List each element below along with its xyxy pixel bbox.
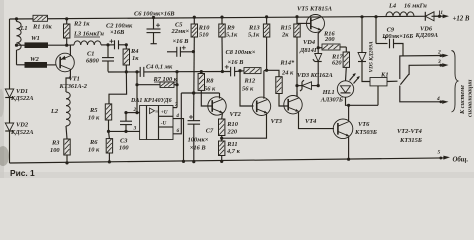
- svg-text:×16 В: ×16 В: [173, 38, 190, 45]
- svg-text:К системе: К системе: [459, 85, 466, 115]
- wire VT5 emitter: [317, 30, 322, 53]
- svg-text:×16В: ×16В: [110, 29, 125, 36]
- svg-text:Рис. 1: Рис. 1: [10, 168, 35, 178]
- resistor R10b: [219, 114, 239, 142]
- capacitor C6: [134, 10, 175, 43]
- svg-text:10 к: 10 к: [88, 146, 100, 153]
- resistor R1: [32, 15, 52, 30]
- inductor L3: [67, 31, 108, 46]
- svg-text:С1: С1: [87, 51, 94, 58]
- svg-text:С6 100мк×16В: С6 100мк×16В: [134, 10, 175, 17]
- svg-text:1: 1: [440, 10, 443, 16]
- svg-text:VD3 КС162А: VD3 КС162А: [297, 72, 333, 79]
- wire pin2 line: [400, 50, 449, 80]
- svg-text:3: 3: [437, 59, 441, 65]
- svg-text:1к: 1к: [132, 55, 139, 62]
- svg-text:3: 3: [133, 126, 137, 132]
- svg-text:R2 1к: R2 1к: [73, 21, 90, 28]
- wire opamp out rail: [181, 91, 219, 94]
- resistor R11: [219, 141, 241, 163]
- svg-text:VT2: VT2: [230, 111, 242, 118]
- svg-text:W1: W1: [31, 35, 40, 42]
- svg-text:6800: 6800: [86, 58, 100, 65]
- svg-text:-U: -U: [161, 120, 167, 126]
- resistor R7: [137, 76, 178, 88]
- capacitor C5: [167, 22, 193, 57]
- svg-text:7: 7: [175, 102, 178, 108]
- inductor L4: [386, 3, 427, 17]
- resistor R8: [198, 74, 216, 107]
- wire pin1 +12V: [432, 10, 470, 22]
- svg-text:16 мкГн: 16 мкГн: [404, 3, 427, 10]
- svg-text:R11: R11: [226, 141, 237, 148]
- svg-text:VT1: VT1: [69, 76, 80, 83]
- svg-text:R10: R10: [226, 121, 238, 128]
- brace outputs: [452, 51, 459, 113]
- wire bottom common bus: [10, 156, 451, 163]
- svg-text:∞: ∞: [155, 109, 159, 115]
- svg-text:HL1: HL1: [322, 89, 335, 96]
- svg-text:100мк×: 100мк×: [188, 136, 209, 143]
- svg-text:КТ315Б: КТ315Б: [399, 137, 422, 144]
- winding W1: [15, 35, 67, 48]
- svg-text:L4: L4: [388, 3, 396, 10]
- wire VT3 base net: [238, 69, 253, 106]
- resistor R10a: [191, 16, 210, 121]
- diode VD3: [297, 72, 333, 91]
- caption Рис. 1: [10, 168, 35, 178]
- svg-text:С8 100мк×: С8 100мк×: [226, 49, 256, 56]
- svg-text:2: 2: [133, 107, 137, 113]
- svg-text:КТ503Б: КТ503Б: [354, 129, 377, 136]
- wire pin5 arrow: [438, 150, 469, 164]
- op-amp DA1: [130, 98, 173, 140]
- relay K1: [370, 71, 389, 105]
- svg-text:×16 В: ×16 В: [228, 59, 245, 66]
- svg-text:200: 200: [324, 36, 335, 43]
- capacitor C4: [140, 64, 173, 77]
- resistor R5: [88, 104, 112, 131]
- wire HL1 bottom rail: [346, 97, 379, 107]
- svg-text:5,1к: 5,1к: [248, 31, 260, 38]
- transistor VT6: [333, 105, 377, 160]
- resistor R16: [318, 30, 346, 50]
- label to alarm system: [459, 79, 474, 117]
- wire feedback left: [135, 70, 138, 114]
- svg-text:АЛ307Б: АЛ307Б: [320, 96, 343, 103]
- svg-text:VD5 КД209А: VD5 КД209А: [369, 41, 375, 73]
- diode VD1: [5, 88, 33, 102]
- transistor VT4: [284, 92, 317, 126]
- diode VD2: [5, 122, 33, 136]
- diode VD4: [299, 39, 322, 86]
- svg-text:W2: W2: [30, 56, 40, 63]
- diode VD5: [358, 15, 375, 81]
- resistor R15: [280, 15, 301, 96]
- wire pin3 line: [409, 59, 448, 75]
- wire top supply bus +12V: [10, 16, 441, 19]
- svg-text:R3: R3: [51, 140, 60, 147]
- svg-text:R6: R6: [89, 139, 98, 146]
- svg-text:×16 В: ×16 В: [190, 144, 207, 151]
- wire rail69: [177, 70, 231, 73]
- svg-text:R14*: R14*: [279, 60, 295, 67]
- svg-text:24 к: 24 к: [281, 69, 294, 76]
- svg-text:VD4: VD4: [303, 39, 315, 46]
- led HL1: [320, 67, 360, 103]
- svg-text:VT2-VT4: VT2-VT4: [397, 128, 422, 135]
- svg-text:DA1 КР140УД6: DA1 КР140УД6: [130, 98, 172, 104]
- svg-text:КД522А: КД522А: [10, 95, 34, 102]
- svg-text:L3 16мкГн: L3 16мкГн: [73, 31, 104, 38]
- transistor VT3: [252, 70, 282, 125]
- svg-text:Д814Г: Д814Г: [299, 47, 318, 54]
- svg-text:220: 220: [227, 128, 238, 135]
- transistor VT2: [208, 93, 242, 118]
- relay contact K1.1: [387, 74, 409, 102]
- transistor VT5: [297, 5, 332, 32]
- capacitor C7: [188, 115, 215, 163]
- capacitor C8: [225, 49, 256, 76]
- wire VT5 base: [297, 22, 310, 24]
- svg-text:VT5 КТ815А: VT5 КТ815А: [297, 5, 332, 12]
- svg-text:VT4: VT4: [305, 118, 316, 125]
- resistor R9: [219, 16, 238, 74]
- transistor VT1: [56, 44, 88, 92]
- svg-text:С4 0,1 мк: С4 0,1 мк: [146, 64, 173, 71]
- svg-text:5: 5: [438, 150, 441, 156]
- svg-text:10 к: 10 к: [88, 114, 100, 121]
- svg-text:100мк×16Б: 100мк×16Б: [382, 33, 413, 40]
- wire pin4: [173, 113, 185, 163]
- wire left frame: [9, 19, 11, 163]
- svg-text:+U: +U: [161, 110, 168, 116]
- resistor R4: [109, 43, 139, 104]
- wire pin3: [107, 126, 140, 133]
- resistor R13: [248, 15, 270, 72]
- svg-text:VD2: VD2: [16, 122, 29, 129]
- svg-text:R5: R5: [89, 107, 98, 114]
- svg-text:5,1к: 5,1к: [226, 31, 238, 38]
- svg-text:С7: С7: [206, 128, 214, 135]
- wire pin4 line: [404, 96, 449, 104]
- svg-text:КД522А: КД522А: [10, 129, 34, 136]
- svg-text:56 к: 56 к: [204, 86, 216, 93]
- resistor R17: [331, 47, 350, 67]
- svg-text:сигнализации: сигнализации: [467, 79, 474, 117]
- resistor R2: [64, 17, 91, 45]
- svg-text:2к: 2к: [281, 31, 289, 38]
- wire pin6 output: [173, 93, 181, 134]
- svg-text:L1: L1: [20, 25, 28, 32]
- svg-text:4: 4: [436, 96, 440, 102]
- label VT2-VT4: [397, 128, 422, 144]
- svg-text:VT3: VT3: [271, 118, 283, 125]
- winding W2: [17, 56, 57, 68]
- svg-text:КД209А: КД209А: [415, 32, 439, 39]
- svg-text:56 к: 56 к: [242, 86, 254, 93]
- resistor R6: [88, 131, 113, 163]
- svg-text:4,7 к: 4,7 к: [226, 148, 241, 155]
- svg-text:22мк×: 22мк×: [171, 28, 190, 35]
- capacitor C1: [86, 43, 114, 71]
- svg-text:100: 100: [119, 145, 129, 152]
- wire pin7: [173, 102, 178, 108]
- capacitor C3: [119, 111, 132, 152]
- diode VD6: [415, 12, 439, 39]
- svg-text:+12 В: +12 В: [453, 15, 470, 22]
- wire R15 top stub: [296, 17, 298, 24]
- resistor R14: [267, 60, 295, 106]
- wire node C1-R4 rail: [108, 70, 177, 73]
- wire pin2: [126, 107, 140, 113]
- svg-text:510: 510: [199, 31, 209, 38]
- svg-text:2: 2: [437, 50, 441, 56]
- inductor L2: [50, 92, 70, 139]
- svg-text:100: 100: [50, 147, 60, 154]
- svg-text:С3: С3: [120, 137, 128, 144]
- svg-text:Общ.: Общ.: [453, 157, 469, 164]
- inductor L1: [15, 17, 28, 65]
- svg-text:6: 6: [177, 128, 180, 134]
- svg-text:К1: К1: [380, 71, 389, 78]
- svg-text:VT6: VT6: [358, 121, 370, 128]
- wire VT4 emitter to VT6 base: [299, 112, 335, 128]
- wire VT3 emitter: [222, 114, 267, 138]
- svg-text:L2: L2: [50, 108, 59, 115]
- svg-text:R12: R12: [244, 77, 256, 84]
- capacitor C2: [106, 23, 133, 50]
- svg-text:620: 620: [332, 59, 342, 66]
- svg-text:R1 10к: R1 10к: [32, 23, 52, 30]
- svg-text:КТ361А-2: КТ361А-2: [59, 83, 88, 90]
- wire feedback right: [175, 70, 178, 108]
- svg-text:4: 4: [175, 113, 179, 119]
- resistor R12: [242, 68, 261, 93]
- capacitor C9: [374, 15, 413, 56]
- svg-text:R8: R8: [205, 77, 214, 84]
- resistor R3: [50, 139, 70, 164]
